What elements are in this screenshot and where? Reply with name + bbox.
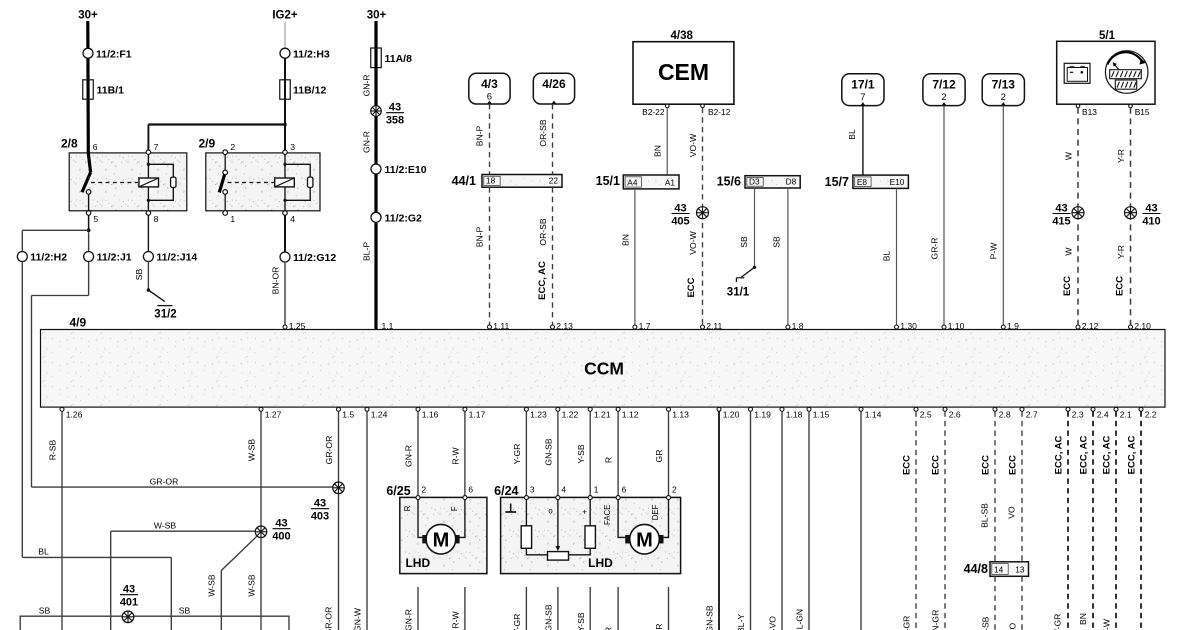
inline joint 43/415 xyxy=(1052,203,1084,228)
CCM pin 1.22 xyxy=(556,407,579,419)
relay 2/8 pin 8 xyxy=(146,211,158,224)
wire label ECC (Y-R line) xyxy=(1114,276,1125,296)
svg-text:415: 415 xyxy=(1052,216,1070,228)
svg-text:GN-GR: GN-GR xyxy=(931,610,941,630)
svg-text:1.22: 1.22 xyxy=(562,410,579,420)
svg-text:11/2:G2: 11/2:G2 xyxy=(385,212,423,224)
svg-text:2/9: 2/9 xyxy=(199,137,216,151)
CCM pin 2.6 xyxy=(943,407,961,419)
svg-text:15/1: 15/1 xyxy=(596,174,620,188)
heater fan control 6/24 xyxy=(494,484,680,573)
svg-text:31/2: 31/2 xyxy=(154,309,176,321)
motor M (6/25) xyxy=(422,524,459,554)
svg-text:SB: SB xyxy=(739,236,749,248)
relay 2/8 pin 7 xyxy=(146,142,158,154)
wire BN from 15/1 pin A4 to CCM pin 1.7 xyxy=(620,189,635,327)
wire 30+ BL-P feed down to CCM pin 1.1 xyxy=(374,21,377,330)
svg-text:11/2:E10: 11/2:E10 xyxy=(385,164,427,176)
svg-text:GN-R: GN-R xyxy=(361,74,371,96)
svg-text:BN-OR: BN-OR xyxy=(270,267,280,295)
CCM pin 2.5 xyxy=(914,407,932,419)
svg-text:410: 410 xyxy=(1142,216,1160,228)
wire relay 2/8 pin 5 to junction xyxy=(87,215,91,232)
svg-text:2: 2 xyxy=(422,484,427,494)
svg-text:1: 1 xyxy=(230,214,235,224)
svg-text:VO: VO xyxy=(1008,622,1018,630)
wire Y-R from B15 to CCM pin 2.10 xyxy=(1116,108,1131,327)
wire label GN-R (upper) xyxy=(361,74,371,96)
CCM pin 1.1 label xyxy=(382,321,394,331)
svg-text:400: 400 xyxy=(272,531,290,543)
svg-text:SB: SB xyxy=(179,605,191,615)
svg-text:11B/1: 11B/1 xyxy=(97,85,125,97)
6/24 potentiometer wiper (pin 4) xyxy=(548,500,569,560)
svg-text:E8: E8 xyxy=(857,177,868,187)
svg-text:Y-SB: Y-SB xyxy=(576,444,586,464)
svg-text:2: 2 xyxy=(230,142,235,152)
svg-text:DEF: DEF xyxy=(651,504,660,520)
svg-text:B2-22: B2-22 xyxy=(642,107,665,117)
svg-text:1.26: 1.26 xyxy=(66,410,83,420)
6/24 pin 3 xyxy=(524,484,535,499)
svg-text:LHD: LHD xyxy=(588,556,613,570)
svg-text:Y-SB: Y-SB xyxy=(576,612,586,630)
6/25 internal wiring R / F xyxy=(403,500,465,538)
svg-text:GN-W: GN-W xyxy=(352,607,362,630)
connector 15/6 xyxy=(717,175,801,189)
svg-text:W-SB: W-SB xyxy=(154,520,177,530)
svg-text:BL: BL xyxy=(38,547,49,557)
relay 2/8 dashed actuator link xyxy=(91,182,138,184)
CCM pin 2.10 xyxy=(1129,321,1152,331)
relay 2/8 pin 5 xyxy=(86,194,98,224)
CCM pin 2.7 xyxy=(1020,407,1038,419)
ground switch 31/1 xyxy=(727,267,755,298)
svg-text:Y-GR: Y-GR xyxy=(512,614,522,630)
relay 2/9 pin 4 xyxy=(283,211,295,224)
6/24 resistor (pin 3 leg) xyxy=(521,500,547,555)
svg-text:D8: D8 xyxy=(786,176,797,186)
svg-text:GN-R: GN-R xyxy=(404,609,414,630)
svg-text:o: o xyxy=(548,506,553,515)
connector 4/3 xyxy=(469,73,510,104)
wire BN-OR to CCM pin 1.25 xyxy=(270,262,285,327)
wire Y-SB from CCM pin 1.21 to 6/24 pin 1 xyxy=(576,411,590,495)
svg-text:43: 43 xyxy=(674,203,686,215)
power source IG2+ xyxy=(272,10,298,22)
svg-text:2.4: 2.4 xyxy=(1097,410,1109,420)
svg-text:1.17: 1.17 xyxy=(469,410,486,420)
svg-text:BL-GN: BL-GN xyxy=(795,609,805,630)
svg-text:2.7: 2.7 xyxy=(1026,410,1038,420)
CCM pin 2.2 xyxy=(1139,407,1157,419)
svg-text:ECC, AC: ECC, AC xyxy=(1127,436,1138,475)
ground mark inside 6/24 xyxy=(505,504,516,513)
5/1 pin B13 xyxy=(1076,104,1097,117)
svg-text:2/8: 2/8 xyxy=(61,137,78,151)
svg-text:1.19: 1.19 xyxy=(754,410,771,420)
svg-text:ECC: ECC xyxy=(1008,455,1019,475)
wire from CCM pin 1.14 xyxy=(860,411,862,630)
wire W-SB rail xyxy=(111,520,256,630)
svg-text:P-W: P-W xyxy=(989,242,999,260)
svg-text:B13: B13 xyxy=(1082,107,1097,117)
svg-text:GN-SB: GN-SB xyxy=(704,605,714,630)
relay 2/8 coil xyxy=(139,178,159,187)
wire BN-P from 44/1 to CCM pin 1.11 xyxy=(475,187,490,327)
svg-text:GN-R: GN-R xyxy=(361,131,371,153)
connector 15/7 xyxy=(825,175,909,189)
wire label ECC xyxy=(686,277,697,297)
svg-text:7/12: 7/12 xyxy=(932,77,956,91)
svg-text:VO-W: VO-W xyxy=(688,230,698,254)
svg-text:6/24: 6/24 xyxy=(494,484,518,498)
svg-text:R-SB: R-SB xyxy=(48,439,58,460)
svg-text:44/1: 44/1 xyxy=(452,174,476,188)
svg-text:1.27: 1.27 xyxy=(265,410,282,420)
svg-text:11/2:G12: 11/2:G12 xyxy=(293,252,336,264)
CCM pin 1.20 xyxy=(717,407,740,419)
svg-text:2.2: 2.2 xyxy=(1145,410,1157,420)
CCM pin 1.8 xyxy=(786,321,804,331)
svg-text:BL-VO: BL-VO xyxy=(768,616,778,630)
CCM pin 1.23 xyxy=(524,407,547,419)
CEM pin B2-12 xyxy=(701,104,731,117)
svg-text:1.13: 1.13 xyxy=(672,410,689,420)
connector 11/2:E10 xyxy=(371,164,427,176)
wire relay 2/9 pin 4 to 11/2:G12 xyxy=(284,215,286,252)
connector 11/2:H3 xyxy=(280,48,330,60)
CCM pin 2.11 xyxy=(701,321,723,331)
svg-text:BN-P: BN-P xyxy=(475,125,485,146)
svg-text:4/3: 4/3 xyxy=(481,77,498,91)
CCM pin 1.10 xyxy=(942,321,965,331)
svg-text:43: 43 xyxy=(389,102,401,114)
svg-text:BL: BL xyxy=(881,251,891,262)
wire GR-OR below joint 43/403 xyxy=(324,494,339,630)
control module CEM 4/38 xyxy=(633,30,734,104)
wire GN-SB from CCM pin 1.20 xyxy=(704,411,719,630)
svg-text:M: M xyxy=(636,530,653,552)
wire W-SB branch diagonal from 43/400 xyxy=(207,536,257,630)
wire Y-W (ECC, AC) from CCM pin 2.1 xyxy=(1101,411,1116,630)
connector 44/1 xyxy=(452,174,562,188)
svg-text:GR-OR: GR-OR xyxy=(324,436,334,465)
svg-text:+: + xyxy=(582,508,587,517)
svg-text:7: 7 xyxy=(154,142,159,152)
CCM pin 1.18 xyxy=(780,407,803,419)
CCM pin 1.30 xyxy=(895,321,918,331)
svg-text:R-W: R-W xyxy=(451,447,461,465)
svg-text:IG2+: IG2+ xyxy=(272,10,298,22)
svg-text:7: 7 xyxy=(860,92,865,103)
svg-text:BL-SB: BL-SB xyxy=(980,616,990,630)
wire BL-SB (ECC) from CCM pin 2.8 to 44/8 pin 14 xyxy=(980,411,995,562)
wire (ECC, AC) from CCM pin 2.2 xyxy=(1127,411,1141,630)
svg-text:30+: 30+ xyxy=(78,10,98,22)
svg-text:6: 6 xyxy=(468,484,473,494)
connector 7/13 xyxy=(982,74,1024,106)
power source 30+ (left) xyxy=(78,10,98,22)
wire BL-GN from CCM pin 1.15 xyxy=(795,411,809,630)
wire GR continuation below LHD box xyxy=(654,587,668,630)
joint 43/400 xyxy=(255,518,290,543)
svg-text:4: 4 xyxy=(561,484,566,494)
relay 2/9 pin 1 xyxy=(223,194,236,224)
svg-text:FACE: FACE xyxy=(603,505,612,525)
svg-text:4/38: 4/38 xyxy=(671,30,694,42)
connector 11/2:J14 xyxy=(143,252,197,264)
svg-text:W-SB: W-SB xyxy=(247,439,257,462)
svg-text:ECC: ECC xyxy=(1062,276,1073,296)
svg-text:A4: A4 xyxy=(627,177,638,187)
CCM pin 1.5 xyxy=(337,407,355,419)
wire Y-GR (ECC, AC) from CCM pin 2.3 xyxy=(1053,411,1068,630)
svg-text:2: 2 xyxy=(672,484,677,494)
svg-text:GR: GR xyxy=(654,450,664,463)
wire BL from 15/7 E10 to CCM pin 1.30 xyxy=(881,188,896,327)
svg-text:15/6: 15/6 xyxy=(717,175,741,189)
svg-text:1.15: 1.15 xyxy=(813,410,830,420)
wire BN from CEM B2-22 to 15/1 pin A1 xyxy=(653,108,668,175)
svg-text:ECC: ECC xyxy=(981,455,992,475)
wire SB rail xyxy=(20,605,289,630)
svg-text:W-SB: W-SB xyxy=(247,574,257,597)
svg-text:13: 13 xyxy=(1015,565,1025,575)
wire 11/2:J1 down to GR-OR rail xyxy=(32,262,89,488)
wire GN-W from CCM pin 1.24 xyxy=(352,411,367,630)
wire SB to ground switch 31/2 xyxy=(134,262,150,292)
wire label ECC, AC xyxy=(537,261,548,300)
CCM pin 2.1 xyxy=(1114,407,1132,419)
relay 2/9 coil wiring and resistor xyxy=(283,154,313,210)
wire OR-SB from 44/1 to CCM pin 2.13 xyxy=(538,187,553,327)
6/25 pin 6 xyxy=(463,484,474,499)
svg-text:405: 405 xyxy=(671,216,689,228)
wire W-SB from CCM pin 1.27 to joint 43/400 xyxy=(247,411,261,526)
svg-text:43: 43 xyxy=(1055,203,1067,215)
svg-text:5/1: 5/1 xyxy=(1099,30,1116,42)
svg-text:BN-P: BN-P xyxy=(475,226,485,247)
svg-text:11/2:J14: 11/2:J14 xyxy=(156,252,197,264)
svg-text:358: 358 xyxy=(386,115,404,127)
wire label ECC (W line) xyxy=(1062,276,1073,296)
svg-text:GN-SB: GN-SB xyxy=(544,438,554,465)
CCM pin 1.25 xyxy=(283,321,306,331)
CCM pin 1.15 xyxy=(807,407,830,419)
svg-text:LHD: LHD xyxy=(405,556,430,570)
CCM pin 2.3 xyxy=(1066,407,1084,419)
svg-text:1.24: 1.24 xyxy=(371,410,388,420)
svg-text:ECC: ECC xyxy=(902,455,913,475)
svg-text:30+: 30+ xyxy=(367,10,387,22)
wire VO (ECC) from CCM pin 2.7 to 44/8 pin 13 xyxy=(1007,411,1022,562)
6/24 pin 2 xyxy=(667,484,678,499)
svg-text:VO-W: VO-W xyxy=(688,133,698,157)
6/24 pin 1 xyxy=(588,484,599,499)
relay 2/9 coil xyxy=(275,178,295,187)
relay 2/8 pin 6 xyxy=(93,142,98,152)
svg-text:W: W xyxy=(1063,247,1073,256)
inline joint 43/403 xyxy=(311,482,344,523)
svg-text:SB: SB xyxy=(39,605,51,615)
svg-text:1.18: 1.18 xyxy=(786,410,803,420)
fuse 11B/1 xyxy=(83,80,124,99)
connector 11/2:H2 xyxy=(17,252,67,264)
wire R-SB from CCM pin 1.26 xyxy=(48,411,62,630)
svg-text:1.5: 1.5 xyxy=(342,410,354,420)
svg-text:ECC, AC: ECC, AC xyxy=(1102,436,1113,475)
svg-text:4: 4 xyxy=(290,214,295,224)
wire BL-Y from CCM pin 1.19 xyxy=(736,411,750,630)
wire GR-R from 7/12 to CCM pin 1.10 xyxy=(929,106,944,327)
svg-text:B15: B15 xyxy=(1135,107,1150,117)
svg-text:1.21: 1.21 xyxy=(594,410,611,420)
wire R-W continuation below LHD box xyxy=(451,587,465,630)
svg-text:VO: VO xyxy=(1007,506,1017,519)
svg-text:1.16: 1.16 xyxy=(422,410,439,420)
wire P-W from 7/13 to CCM pin 1.9 xyxy=(989,106,1004,327)
svg-text:ECC: ECC xyxy=(1114,276,1125,296)
svg-text:2.5: 2.5 xyxy=(920,410,932,420)
svg-text:3: 3 xyxy=(290,142,295,152)
svg-text:GR-OR: GR-OR xyxy=(324,607,334,630)
svg-text:SB: SB xyxy=(772,236,782,248)
svg-text:R: R xyxy=(604,457,614,463)
wire 30+ feed down to relay 2/8 pin 6 xyxy=(86,21,90,153)
wire 11/2:H3 to relay 2/9 pin 3 xyxy=(284,58,286,151)
wire 11/2:J14 from relay 2/8 pin 8 xyxy=(147,215,149,251)
6/24 pin 6 xyxy=(616,484,627,499)
svg-text:5: 5 xyxy=(93,214,98,224)
motor M (6/24) xyxy=(625,524,663,554)
wire GR-OR from CCM pin 1.5 to joint 43/403 xyxy=(324,411,338,482)
svg-text:R-W: R-W xyxy=(451,611,461,629)
svg-text:F: F xyxy=(450,506,459,511)
svg-text:6: 6 xyxy=(622,484,627,494)
wire IG2+ down to connector 11/2:H3 xyxy=(284,22,286,48)
wire VO-W from CEM B2-12 to CCM pin 2.11 xyxy=(688,108,703,327)
connector 15/1 xyxy=(596,174,679,189)
svg-text:11B/12: 11B/12 xyxy=(293,85,326,97)
wire BN (ECC, AC) from CCM pin 2.4 xyxy=(1078,411,1093,630)
svg-text:2: 2 xyxy=(941,92,946,103)
svg-text:2.1: 2.1 xyxy=(1120,410,1132,420)
6/24 pin 4 xyxy=(556,484,567,499)
svg-text:11/2:F1: 11/2:F1 xyxy=(96,48,132,60)
svg-text:Y-R: Y-R xyxy=(1116,149,1126,163)
svg-text:11/2:H2: 11/2:H2 xyxy=(30,252,67,264)
svg-text:43: 43 xyxy=(123,584,135,596)
ground switch 31/2 xyxy=(148,290,176,320)
wire GN-R continuation below LHD box xyxy=(404,587,418,630)
svg-text:2.8: 2.8 xyxy=(999,410,1011,420)
svg-text:ECC: ECC xyxy=(931,455,942,475)
svg-text:D3: D3 xyxy=(749,176,760,186)
svg-text:31/1: 31/1 xyxy=(727,287,750,299)
svg-text:22: 22 xyxy=(549,176,559,186)
svg-text:BN: BN xyxy=(1078,613,1088,625)
svg-text:BL-Y: BL-Y xyxy=(736,614,746,630)
svg-text:2.6: 2.6 xyxy=(949,410,961,420)
svg-text:BL-SB: BL-SB xyxy=(980,503,990,528)
relay 2/9 pin 3 xyxy=(283,142,295,154)
svg-text:401: 401 xyxy=(120,597,138,609)
svg-text:BN: BN xyxy=(620,234,630,246)
svg-text:11/2:J1: 11/2:J1 xyxy=(97,252,132,264)
svg-text:GN-R: GN-R xyxy=(404,445,414,467)
svg-text:14: 14 xyxy=(994,565,1004,575)
connector 11/2:G12 xyxy=(280,252,336,264)
wire BL from 17/1 to 15/7 pin E8 xyxy=(847,106,863,176)
svg-text:W: W xyxy=(1063,151,1073,160)
svg-text:BL-P: BL-P xyxy=(361,242,371,261)
CCM pin 1.21 xyxy=(588,407,611,419)
CEM pin B2-22 xyxy=(642,104,669,117)
svg-text:17/1: 17/1 xyxy=(851,77,875,91)
svg-text:ECC, AC: ECC, AC xyxy=(1054,436,1065,475)
6/24 resistor (pin 1 leg) xyxy=(569,500,596,555)
wire 11/2:H2 down to BL rail xyxy=(21,262,23,558)
svg-text:2: 2 xyxy=(1001,92,1006,103)
svg-text:GR-OR: GR-OR xyxy=(150,476,179,486)
wire SB from 15/6 D3 to switch 31/1 xyxy=(739,188,756,269)
wire GR-OR rail xyxy=(32,476,334,487)
wire R from CCM pin 1.12 to 6/24 pin 6 xyxy=(604,411,618,495)
svg-text:11/2:H3: 11/2:H3 xyxy=(293,48,330,60)
svg-text:Y-GR: Y-GR xyxy=(902,616,912,630)
svg-text:M: M xyxy=(433,530,450,552)
power source 30+ (column 3) xyxy=(367,10,387,22)
svg-text:18: 18 xyxy=(486,176,496,186)
svg-text:11A/8: 11A/8 xyxy=(385,53,413,65)
fuse 11B/12 xyxy=(280,80,327,99)
svg-text:W-SB: W-SB xyxy=(207,574,217,597)
wire R-W from CCM pin 1.17 to 6/25 pin 6 xyxy=(451,411,465,495)
6/24 DEF wiring xyxy=(651,500,669,538)
inline joint 43/405 xyxy=(671,203,708,228)
wire Y-GR continuation below LHD box xyxy=(512,587,526,630)
CCM pin 1.16 xyxy=(416,407,439,419)
fuse 11A/8 xyxy=(371,48,412,68)
connector 44/8 xyxy=(964,562,1029,577)
wire GR from CCM pin 1.13 to 6/24 pin 2 xyxy=(654,411,668,495)
relay 2/8 xyxy=(61,137,187,211)
CCM pin 1.17 xyxy=(463,407,486,419)
connector 7/12 xyxy=(923,74,965,106)
relay 2/9 dashed actuator link xyxy=(228,182,275,184)
connector 4/26 xyxy=(533,73,574,104)
svg-text:Y-W: Y-W xyxy=(1101,618,1111,630)
connector 11/2:J1 xyxy=(84,232,132,263)
connector 11/2:G2 xyxy=(371,212,422,224)
wire Y-GR from CCM pin 1.23 to 6/24 pin 3 xyxy=(512,411,526,495)
svg-text:E10: E10 xyxy=(890,177,905,187)
CCM pin 1.13 xyxy=(667,407,690,419)
svg-text:3: 3 xyxy=(530,484,535,494)
svg-text:7/13: 7/13 xyxy=(992,77,1016,91)
wire SB from 15/6 D8 to CCM pin 1.8 xyxy=(772,188,788,327)
bulb 43/401 xyxy=(120,584,138,623)
svg-text:Y-R: Y-R xyxy=(1116,245,1126,259)
wire BL rail xyxy=(22,547,171,630)
CCM pin 1.27 xyxy=(259,407,282,419)
svg-text:1: 1 xyxy=(594,484,599,494)
svg-text:ECC, AC: ECC, AC xyxy=(537,261,548,300)
CCM pin 1.7 xyxy=(633,321,651,331)
svg-text:GN-SB: GN-SB xyxy=(544,604,554,630)
svg-text:BL: BL xyxy=(847,129,857,140)
